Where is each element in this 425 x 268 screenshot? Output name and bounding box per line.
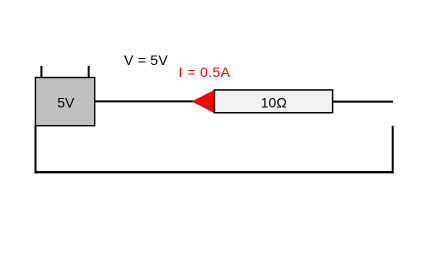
wire resistor to right xyxy=(333,101,393,103)
wire battery to current arrow xyxy=(95,100,194,102)
resistor R1 10Ω xyxy=(214,90,332,113)
svg-text:10Ω: 10Ω xyxy=(261,95,287,111)
wire left vertical xyxy=(35,125,37,173)
svg-text:I = 0.5A: I = 0.5A xyxy=(179,64,231,80)
svg-text:V = 5V: V = 5V xyxy=(124,52,168,68)
wire bottom xyxy=(34,171,393,173)
battery terminal tick right xyxy=(88,66,90,78)
svg-text:5V: 5V xyxy=(57,94,75,110)
voltage source B1 5V xyxy=(35,78,94,126)
battery terminal tick left xyxy=(40,66,42,78)
current arrow (direction of I) xyxy=(192,90,215,113)
wire right vertical (open gap above) xyxy=(392,126,394,174)
